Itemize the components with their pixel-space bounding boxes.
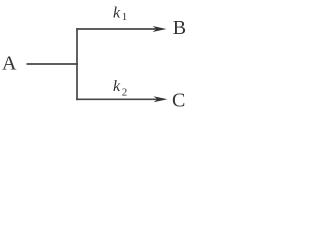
arrow A to B bbox=[76, 26, 166, 32]
svg-text:A: A bbox=[2, 53, 17, 75]
wire vertical branch bbox=[76, 28, 78, 100]
label k2 bbox=[113, 78, 127, 99]
svg-text:B: B bbox=[173, 17, 186, 39]
svg-text:1: 1 bbox=[122, 11, 128, 23]
svg-text:2: 2 bbox=[122, 87, 128, 99]
label k1 bbox=[113, 4, 127, 23]
arrow A to C bbox=[76, 96, 167, 102]
svg-text:C: C bbox=[172, 89, 185, 111]
node A bbox=[2, 53, 17, 75]
node B bbox=[173, 17, 186, 39]
wire A to branch point bbox=[27, 63, 79, 65]
node C bbox=[172, 89, 185, 111]
svg-text:k: k bbox=[113, 78, 121, 95]
svg-text:k: k bbox=[113, 4, 121, 21]
